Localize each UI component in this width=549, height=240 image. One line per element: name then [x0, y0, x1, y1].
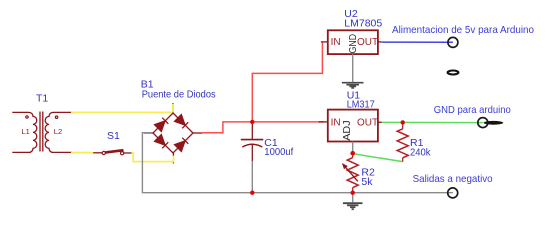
- terminal circle: Salidas a negativo: [448, 188, 458, 198]
- bridge B1 pin left: [144, 132, 153, 134]
- wire yellow: T1 secondary top to bridge: [71, 111, 173, 113]
- wire green: U1 OUT to terminal (GND para arduino net): [382, 121, 483, 123]
- junction node: ADJ / R2 / green wire: [350, 151, 355, 156]
- switch S1: [93, 150, 131, 155]
- junction node: bridge plus / C1 / U2 feed: [250, 120, 254, 124]
- terminal circle: GND para arduino: [478, 118, 488, 128]
- regulator U2 LM7805 box: [328, 30, 378, 54]
- wire yellow: switch to bridge bottom: [132, 153, 174, 162]
- wire red: node to U2 IN: [252, 42, 322, 122]
- resistor R2 5k (trimmer): [347, 153, 358, 192]
- pad ellipse below Alimentacion terminal: [448, 71, 459, 75]
- bridge B1 pin right: [193, 132, 202, 134]
- pad ellipse right of GND terminal: [484, 121, 504, 125]
- terminal circle: Alimentacion de 5v: [448, 37, 458, 47]
- svg-text:1000uf: 1000uf: [264, 146, 293, 158]
- diode bridge B1 diamond: [153, 113, 193, 153]
- regulator U1 LM317 box: [328, 110, 378, 142]
- svg-text:GND para arduino: GND para arduino: [434, 104, 511, 116]
- wire gray: C1 minus to rail: [251, 161, 253, 192]
- junction node: C1 minus on rail: [250, 191, 254, 195]
- svg-text:ADJ: ADJ: [342, 120, 353, 141]
- svg-text:OUT: OUT: [357, 118, 378, 129]
- wire gray: U2 GND to ground: [352, 54, 354, 82]
- diode D top-left: [154, 118, 168, 132]
- bridge B1 pin bottom: [172, 153, 174, 164]
- diode D bottom-right: [174, 138, 188, 152]
- resistor R1 240k: [397, 122, 408, 161]
- svg-text:T1: T1: [36, 92, 48, 104]
- svg-text:Puente de Diodos: Puente de Diodos: [142, 89, 216, 101]
- wire yellow: stub into bridge top pin: [172, 104, 174, 113]
- svg-text:GND: GND: [348, 34, 359, 54]
- wire yellow: T1 secondary bottom to switch: [71, 152, 94, 154]
- svg-text:OUT: OUT: [357, 37, 378, 48]
- diode D bottom-left: [154, 134, 168, 148]
- svg-text:L1: L1: [22, 127, 30, 136]
- R2 wiper arrow: [343, 164, 358, 181]
- wire blue: U2 OUT to terminal (Alimentacion net): [382, 41, 453, 43]
- ground symbol under R2 on rail: [352, 193, 354, 203]
- capacitor C1: [241, 124, 263, 161]
- svg-text:L2: L2: [54, 127, 62, 136]
- svg-text:Salidas a negativo: Salidas a negativo: [413, 173, 493, 185]
- svg-text:IN: IN: [331, 37, 341, 48]
- wire green: ADJ node to R1 bottom: [353, 154, 403, 162]
- wire red: bridge plus to main node: [202, 122, 324, 133]
- U2 pin IN stub: [321, 41, 328, 43]
- junction node: R2 bottom on rail: [351, 191, 355, 195]
- svg-text:Alimentacion de 5v para Arduin: Alimentacion de 5v para Arduino: [392, 24, 534, 36]
- svg-text:IN: IN: [331, 118, 341, 129]
- svg-text:S1: S1: [107, 130, 120, 142]
- wire gray: U1 ADJ to node: [352, 142, 354, 154]
- U2 pin OUT stub: [378, 41, 382, 43]
- svg-text:240k: 240k: [410, 147, 431, 159]
- svg-text:LM317: LM317: [347, 99, 375, 111]
- diode D top-right: [174, 114, 188, 128]
- bridge B1 pin top: [172, 103, 174, 113]
- transformer T1: [12, 112, 72, 153]
- U1 pin IN stub: [319, 121, 328, 123]
- ground symbol under U2: [342, 83, 364, 88]
- svg-text:5k: 5k: [361, 176, 373, 188]
- wire gray: bridge minus to bottom rail (Salidas a negativo net): [142, 133, 453, 193]
- svg-text:LM7805: LM7805: [344, 17, 382, 29]
- junction node: U1 OUT / R1: [401, 120, 405, 124]
- U1 pin OUT stub: [378, 121, 382, 123]
